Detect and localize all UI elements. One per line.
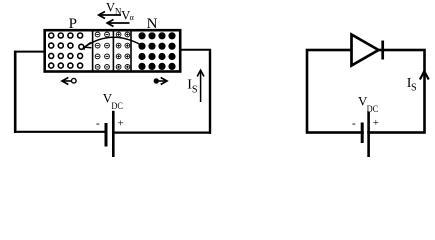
- battery V_DC positive plate (long, right circuit): [367, 112, 370, 158]
- wire: right circuit loop: [307, 50, 425, 133]
- battery V_DC positive plate (long): [112, 111, 115, 157]
- current arrow I_S (left circuit): [197, 70, 204, 102]
- svg-text:DC: DC: [367, 105, 379, 115]
- battery V_DC negative plate (short, right circuit): [361, 123, 364, 144]
- label minus (right circuit): [352, 118, 356, 130]
- arrow V_alpha (lower left-pointing arrow): [107, 20, 129, 27]
- recombination arc (electron crossing junction to hole): [84, 37, 142, 50]
- label V_DC (right circuit): [358, 93, 378, 115]
- depletion region positive donor ions (circled plus 2x4): [116, 32, 130, 69]
- wire: bottom battery to right: [113, 132, 211, 134]
- battery V_DC negative plate (short): [105, 123, 108, 147]
- svg-text:+: +: [373, 117, 379, 129]
- junction divider (depletion centre line): [112, 32, 114, 71]
- N region electrons (filled circles 4x4): [138, 32, 175, 70]
- label N: [147, 16, 158, 32]
- label V_alpha: [121, 8, 134, 22]
- wire: left vertical: [14, 51, 17, 133]
- label I_S (right circuit): [407, 76, 417, 94]
- label plus: [118, 118, 124, 130]
- wire: left stub from bar to left wire: [14, 51, 44, 53]
- wire: bottom left to battery: [14, 131, 106, 133]
- label I_S (left circuit): [187, 78, 198, 96]
- label V_DC: [103, 91, 123, 113]
- junction divider (depletion / N boundary): [130, 32, 132, 71]
- svg-text:+: +: [118, 118, 124, 130]
- label plus (right circuit): [373, 117, 379, 129]
- svg-text:DC: DC: [111, 102, 123, 112]
- arrow V_N (upper left-pointing arrow): [99, 12, 121, 19]
- diode D (triangle + cathode bar): [352, 35, 383, 66]
- svg-text:S: S: [411, 83, 417, 94]
- P region holes (open circles 4x4): [49, 33, 84, 68]
- electron drift arrow below bar (filled dot with right-pointing arrow): [154, 78, 167, 85]
- svg-text:-: -: [96, 118, 100, 130]
- label P: [69, 16, 77, 32]
- depletion region negative acceptor ions (circled minus 2x4): [95, 32, 109, 69]
- label V_N: [106, 1, 122, 17]
- svg-text:P: P: [69, 16, 77, 32]
- label minus: [96, 118, 100, 130]
- hole drift arrow below bar (left-pointing with open circle): [62, 78, 76, 85]
- current arrowhead I_S on right circuit wire: [420, 71, 429, 79]
- svg-text:N: N: [147, 16, 158, 32]
- wire: right stub from bar: [181, 49, 211, 51]
- battery V_DC right circuit: gap in bottom wire: [364, 128, 367, 137]
- svg-text:S: S: [192, 84, 198, 95]
- semiconductor bar outline (P-N junction box): [45, 30, 181, 71]
- junction divider (P / depletion boundary): [92, 32, 94, 71]
- svg-text:-: -: [352, 118, 356, 130]
- svg-text:V: V: [106, 1, 115, 15]
- wire: right vertical: [209, 49, 211, 134]
